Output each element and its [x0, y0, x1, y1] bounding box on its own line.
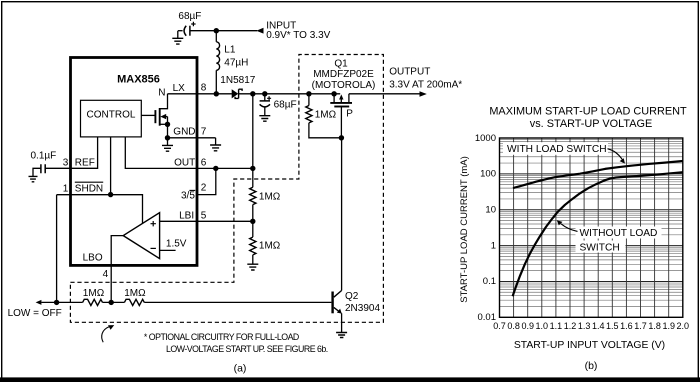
svg-text:1.5: 1.5: [606, 321, 619, 331]
node SHDN/CONTROL: [108, 192, 113, 197]
svg-text:0.8: 0.8: [507, 321, 520, 331]
wire diode to output rail: [239, 93, 341, 95]
svg-text:LX: LX: [173, 83, 186, 94]
wire LBI: [160, 220, 253, 222]
svg-text:P: P: [346, 109, 353, 120]
resistor R1 1M (Q1 gate pullup): [308, 94, 310, 106]
svg-text:0.9: 0.9: [521, 321, 534, 331]
svg-text:Q1: Q1: [334, 58, 348, 69]
svg-text:OUTPUT: OUTPUT: [389, 66, 430, 77]
svg-text:vs. START-UP VOLTAGE: vs. START-UP VOLTAGE: [530, 118, 652, 130]
transistor internal N-MOSFET: [154, 110, 156, 123]
node OUT/pin2: [213, 166, 218, 171]
wire 1.5V ref stub: [160, 249, 176, 251]
wire LX pin to rail: [168, 93, 232, 95]
curve WITH LOAD SWITCH: [513, 161, 683, 188]
wire REF: [45, 137, 97, 168]
chart vertical gridlines: [514, 138, 669, 317]
svg-text:1.1: 1.1: [550, 321, 563, 331]
diode D1 1N5817 (Schottky): [232, 89, 239, 98]
svg-text:(MOTOROLA): (MOTOROLA): [312, 80, 376, 91]
ground (output cap): [264, 114, 266, 116]
svg-text:0.7: 0.7: [493, 321, 506, 331]
wire divider from rail: [252, 94, 254, 188]
wire R5 to Q2 base: [144, 301, 331, 303]
resistor R2 1M (divider top): [250, 187, 256, 204]
svg-text:N: N: [158, 88, 165, 99]
wire input node to L1: [215, 31, 217, 42]
IC U1 MAX856 box: [71, 58, 198, 266]
svg-text:LOW = OFF: LOW = OFF: [8, 308, 62, 319]
op-amp comparator (LBI): [123, 213, 159, 259]
svg-text:1000: 1000: [475, 133, 496, 144]
node divider tap on rail: [250, 91, 255, 96]
svg-text:68µF: 68µF: [274, 100, 297, 111]
svg-text:REF: REF: [75, 157, 95, 168]
svg-text:100: 100: [480, 169, 496, 180]
resistor R5 1M (right): [124, 299, 144, 305]
chart x tick labels: [493, 321, 689, 331]
svg-text:Q2: Q2: [345, 291, 359, 302]
svg-text:1.3: 1.3: [578, 321, 591, 331]
svg-text:68µF: 68µF: [178, 11, 201, 22]
svg-text:1.2: 1.2: [564, 321, 577, 331]
svg-text:LOW-VOLTAGE START UP. SEE FIGU: LOW-VOLTAGE START UP. SEE FIGURE 6b.: [166, 344, 328, 354]
node OUT/divider: [250, 166, 255, 171]
bottom black bar: [0, 377, 700, 382]
svg-text:0.1: 0.1: [483, 276, 496, 287]
inductor L1: [216, 42, 219, 70]
wire R4 to R5: [103, 301, 125, 303]
ground (N-FET source): [167, 138, 169, 146]
node LBO junction: [109, 300, 114, 305]
svg-text:2: 2: [201, 182, 207, 193]
resistor R3 1M (divider bottom): [250, 237, 256, 255]
wire LBO output: [111, 236, 123, 303]
capacitor C1 68uF input (polarized): [178, 30, 183, 32]
svg-text:LBO: LBO: [83, 253, 103, 264]
dashed outline: optional circuitry + Q1 box: [70, 55, 383, 323]
node LOW=OFF / SHDN: [54, 300, 59, 305]
svg-text:1MΩ: 1MΩ: [315, 109, 337, 120]
svg-text:5: 5: [201, 210, 207, 221]
LOW=OFF terminal arrow: [36, 300, 42, 305]
chart major decade gridlines: [500, 174, 683, 282]
label WITH LOAD SWITCH: [503, 142, 608, 155]
node LBI/divider: [250, 219, 255, 224]
svg-text:3: 3: [63, 157, 69, 168]
comparator + symbol: [151, 221, 156, 226]
capacitor C3 0.1uF: [41, 164, 45, 173]
ground (input cap): [177, 31, 179, 39]
svg-text:1.9: 1.9: [662, 321, 675, 331]
svg-text:3/5: 3/5: [181, 191, 195, 202]
svg-text:0.9V* TO 3.3V: 0.9V* TO 3.3V: [266, 30, 330, 41]
svg-text:MMDFZP02E: MMDFZP02E: [313, 69, 374, 80]
label WITHOUT LOAD SWITCH: [576, 227, 662, 239]
wire divider mid: [252, 205, 254, 238]
svg-text:4: 4: [103, 269, 109, 280]
ground (divider): [252, 263, 254, 265]
svg-text:* OPTIONAL CIRCUITRY FOR FULL-: * OPTIONAL CIRCUITRY FOR FULL-LOAD: [144, 332, 299, 342]
svg-text:START-UP INPUT VOLTAGE (V): START-UP INPUT VOLTAGE (V): [514, 340, 665, 351]
wire OUT (CONTROL to divider): [125, 137, 253, 169]
svg-text:7: 7: [201, 127, 207, 138]
ground (GND pin external): [215, 138, 217, 145]
svg-text:6: 6: [201, 157, 207, 168]
svg-text:CONTROL: CONTROL: [87, 110, 136, 121]
svg-text:GND: GND: [173, 127, 195, 138]
svg-text:OUT: OUT: [174, 157, 195, 168]
svg-text:2.0: 2.0: [677, 321, 690, 331]
svg-text:WITHOUT LOAD: WITHOUT LOAD: [580, 228, 658, 239]
svg-text:0.1µF: 0.1µF: [31, 151, 57, 162]
svg-text:1: 1: [491, 240, 496, 251]
svg-text:1.6: 1.6: [620, 321, 633, 331]
wire divider to ground: [252, 255, 254, 264]
leader arrow (with load switch): [608, 149, 623, 160]
ground (Q2 emitter): [341, 331, 343, 333]
node Q1 source: [331, 91, 336, 96]
svg-text:1MΩ: 1MΩ: [259, 241, 281, 252]
node R1 top on rail: [306, 91, 311, 96]
svg-text:WITH LOAD SWITCH: WITH LOAD SWITCH: [507, 144, 607, 155]
wire LOW=OFF to R4: [41, 301, 82, 303]
resistor R4 1M (left): [83, 299, 103, 305]
svg-text:1.5V: 1.5V: [166, 239, 187, 250]
svg-text:MAX856: MAX856: [117, 74, 160, 86]
svg-text:8: 8: [201, 82, 207, 93]
curve WITHOUT LOAD SWITCH: [513, 172, 683, 296]
input terminal arrow: [256, 28, 263, 34]
leader arrow (without load switch): [561, 224, 578, 232]
node Q1 gate / R1: [339, 135, 344, 140]
wire GND pin: [168, 137, 216, 139]
transistor Q2 2N3904 NPN: [331, 292, 333, 314]
svg-text:1.8: 1.8: [648, 321, 661, 331]
wire pin2 3/5: [197, 168, 216, 194]
node LX/L1: [214, 91, 219, 96]
wire input to arrow: [216, 30, 257, 32]
svg-text:3.3V AT 200mA*: 3.3V AT 200mA*: [389, 80, 462, 91]
footnote leader arrow: [102, 327, 109, 342]
svg-text:(b): (b): [585, 360, 598, 372]
CONTROL block: [81, 100, 142, 137]
wire CONTROL gate: [141, 114, 154, 116]
wire CONTROL to SHDN: [110, 137, 112, 195]
svg-text:2N3904: 2N3904: [345, 303, 380, 314]
svg-text:1.4: 1.4: [592, 321, 605, 331]
node: input junction: [214, 28, 219, 33]
node GND junction: [165, 135, 170, 140]
wire SHDN to LOW=OFF: [56, 195, 58, 303]
svg-text:10: 10: [485, 205, 496, 216]
comparator - symbol: [151, 247, 156, 249]
wire L1 to LX rail: [215, 70, 217, 94]
chart plot frame: [500, 138, 683, 317]
svg-text:MAXIMUM START-UP LOAD CURRENT: MAXIMUM START-UP LOAD CURRENT: [489, 106, 687, 118]
node output cap tap: [262, 91, 267, 96]
wire SHDN: [57, 195, 143, 224]
svg-text:47µH: 47µH: [224, 57, 248, 68]
svg-text:1.7: 1.7: [634, 321, 647, 331]
svg-text:1N5817: 1N5817: [220, 75, 255, 86]
node N-FET source: [165, 122, 170, 127]
svg-text:(a): (a): [234, 362, 247, 374]
svg-text:1.0: 1.0: [536, 321, 549, 331]
svg-text:SWITCH: SWITCH: [580, 242, 620, 253]
chart minor gridlines: [500, 140, 683, 307]
svg-text:START-UP LOAD CURRENT (mA): START-UP LOAD CURRENT (mA): [459, 156, 470, 303]
svg-text:LBI: LBI: [179, 210, 194, 221]
transistor Q1 P-MOSFET: [333, 94, 335, 103]
svg-text:1MΩ: 1MΩ: [124, 288, 146, 299]
svg-text:SHDN: SHDN: [75, 184, 103, 195]
capacitor C2 68uF output (polarized): [264, 94, 266, 101]
output terminal arrow: [420, 91, 427, 97]
chart y tick labels: [475, 133, 496, 323]
svg-text:1: 1: [63, 184, 69, 195]
svg-text:L1: L1: [224, 45, 236, 56]
svg-text:1MΩ: 1MΩ: [83, 288, 105, 299]
wire Q1 drain to output: [349, 93, 420, 95]
ground (REF cap): [32, 175, 34, 177]
svg-text:1MΩ: 1MΩ: [259, 192, 281, 203]
